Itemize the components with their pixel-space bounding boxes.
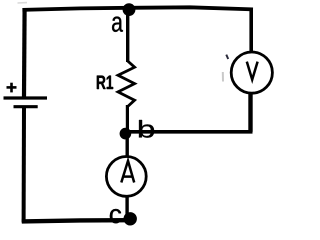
node c junction dot [124, 212, 137, 225]
ammeter M2 circle [106, 157, 146, 197]
battery B1 positive plate [4, 96, 48, 99]
stray tick mark near voltmeter [226, 55, 228, 59]
wire left vertical lower (battery - terminal to bottom wire) [22, 107, 26, 223]
battery B1 negative plate [14, 105, 38, 108]
voltmeter V letter [247, 62, 258, 80]
label b [139, 120, 154, 138]
wire from ammeter down to node c [125, 196, 128, 219]
wire horizontal from node b to right branch [125, 130, 253, 134]
wire middle vertical from node a down to resistor top [126, 10, 129, 63]
wire top from battery to node a to top-right corner [22, 7, 253, 10]
node b junction dot [120, 128, 132, 140]
label R1 [97, 76, 113, 89]
node a junction dot [123, 3, 136, 16]
wire bottom from left corner to node c [22, 220, 135, 221]
wire right vertical upper (top wire to voltmeter) [249, 8, 253, 52]
resistor R1 zigzag body [118, 61, 135, 107]
label a [112, 17, 123, 32]
ammeter A letter [121, 161, 134, 183]
voltmeter M1 circle [231, 52, 272, 93]
faint smudge above top-left corner [18, 2, 28, 4]
wire left vertical upper (battery + terminal to top wire) [22, 8, 27, 96]
wire right vertical lower (voltmeter to node b wire) [248, 93, 252, 132]
wire from node b down to ammeter [125, 133, 128, 156]
label c [110, 209, 121, 223]
faint smudge left of voltmeter [222, 72, 224, 82]
wire from resistor bottom to node b [126, 105, 129, 134]
battery plus sign label [7, 83, 17, 93]
